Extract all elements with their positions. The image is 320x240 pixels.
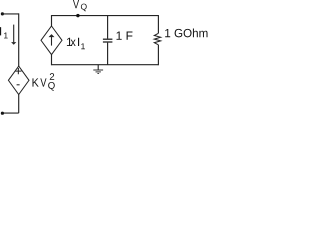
ground symbol <box>93 65 103 74</box>
capacitor C1 plates <box>103 39 113 42</box>
wire (top-left horizontal) <box>2 13 18 15</box>
node dot VQ <box>76 14 79 17</box>
label subscript 1 (of I1) <box>4 33 8 39</box>
current source SRC1 diamond (1xI1) <box>41 26 62 55</box>
label V (of VQ) <box>73 0 79 8</box>
label subscript Q (of VQ) <box>81 4 87 12</box>
node dot (left branch, top open end) <box>1 12 4 15</box>
label subscript Q <box>48 82 55 91</box>
current direction arrow I1 <box>11 25 16 45</box>
wire (top rail, node VQ) <box>52 15 159 17</box>
label subscript 1 (of 1xI1) <box>81 43 85 49</box>
label superscript 2 <box>50 73 54 80</box>
label 1 GOhm <box>165 29 207 38</box>
node dot (left branch, bottom open end) <box>1 112 4 115</box>
label I (of 1xI1) <box>78 38 79 46</box>
plus sign <box>15 68 21 74</box>
wire (current source top lead) <box>51 15 53 26</box>
label x (of 1xI1) <box>71 40 76 46</box>
arrow inside current source (pointing up) <box>49 34 55 46</box>
wire (left branch vertical, top) <box>18 13 20 66</box>
label 1 (of 1xI1) <box>67 38 72 46</box>
minus sign <box>17 84 20 86</box>
label V (of K V) <box>40 78 46 86</box>
wire (bottom-left horizontal) <box>2 112 18 114</box>
capacitor C1 top lead <box>107 16 109 39</box>
resistor R1 top lead <box>157 15 159 33</box>
voltage source V1 diamond (K*VQ^2) <box>8 66 29 94</box>
label 1 F <box>117 32 133 40</box>
resistor R1 zigzag <box>154 33 160 45</box>
label I (of I1) <box>0 27 1 35</box>
label K <box>32 78 38 86</box>
resistor R1 bottom lead <box>157 45 159 65</box>
wire (left branch vertical, bottom) <box>18 95 20 114</box>
wire (bottom rail) <box>52 64 159 66</box>
wire (current source bottom lead) <box>51 54 53 65</box>
capacitor C1 bottom lead <box>107 43 109 65</box>
